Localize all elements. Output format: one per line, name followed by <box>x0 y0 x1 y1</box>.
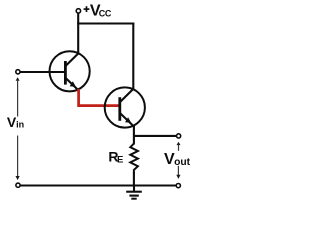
wire: Q2 emitter down to resistor <box>133 126 135 145</box>
wire: resistor to bottom rail <box>133 172 135 186</box>
+Vcc label <box>84 3 112 20</box>
Vin label <box>7 114 24 130</box>
resistor RE <box>130 144 138 173</box>
wire: rail down to Q2 collector <box>132 23 134 89</box>
output terminal (bottom) <box>176 184 180 188</box>
wire: junction to Vout top terminal <box>133 135 177 137</box>
red wire: Q1 emitter to Q2 base <box>79 89 120 106</box>
ground <box>126 186 142 199</box>
input terminal (bottom) <box>16 183 20 187</box>
Vout arrow (down) <box>176 166 180 179</box>
transistor Q1 <box>50 51 90 91</box>
svg-text:E: E <box>117 154 123 165</box>
RE label <box>108 149 123 166</box>
output terminal (top) <box>177 134 181 138</box>
Vout label <box>164 151 191 168</box>
+Vcc terminal node <box>76 9 80 13</box>
input terminal (top) <box>16 70 20 74</box>
wire: bottom rail <box>20 184 177 186</box>
svg-text:in: in <box>16 120 24 130</box>
transistor Q2 <box>105 87 145 127</box>
svg-text:CC: CC <box>99 8 112 18</box>
wire: top rail Vcc to Q2 collector branch <box>77 22 134 24</box>
Vin arrow (up) <box>16 77 20 116</box>
wire: Q1 base lead <box>20 71 66 73</box>
Vout arrow (up) <box>177 142 181 151</box>
svg-text:out: out <box>174 157 191 168</box>
wire: Vcc node down to Q1 collector <box>77 13 79 54</box>
Vin arrow (down) <box>16 136 20 181</box>
